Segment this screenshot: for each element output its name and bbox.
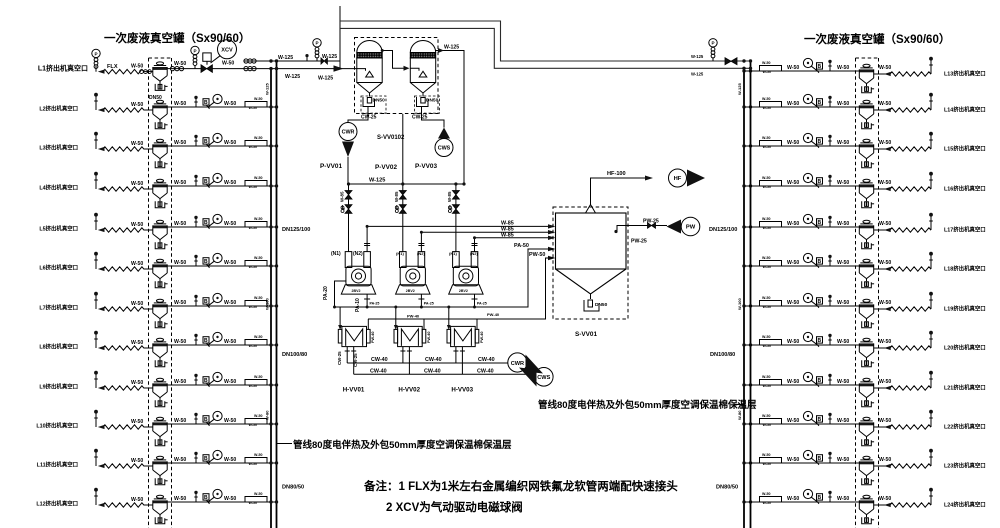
svg-text:备注：1 FLX为1米左右金属编织网铁氟龙软管两端配快速接头: 备注：1 FLX为1米左右金属编织网铁氟龙软管两端配快速接头 xyxy=(363,479,678,493)
svg-text:CWS: CWS xyxy=(438,146,451,152)
pump 3 drain stem xyxy=(472,295,478,308)
HF exhaust symbol xyxy=(669,169,687,187)
svg-text:L3挤出机真空口: L3挤出机真空口 xyxy=(39,144,78,152)
svg-text:PA-50: PA-50 xyxy=(514,243,529,249)
branch row L21 xyxy=(742,371,933,407)
svg-text:HF-100: HF-100 xyxy=(607,171,626,177)
junction dots top-left xyxy=(269,67,272,70)
branch row L4 xyxy=(94,172,278,208)
svg-text:H-VV02: H-VV02 xyxy=(398,387,420,394)
cooling water CW-25 piping under tanks xyxy=(348,107,368,123)
heat exchanger H-VV01 xyxy=(338,326,370,346)
riser from header to transfer lines xyxy=(339,6,341,69)
svg-text:W-85: W-85 xyxy=(340,191,345,202)
svg-text:CW-25: CW-25 xyxy=(412,115,428,121)
svg-text:L4挤出机真空口: L4挤出机真空口 xyxy=(39,184,78,192)
svg-text:PW-40: PW-40 xyxy=(480,331,484,343)
svg-text:W-125: W-125 xyxy=(265,83,270,95)
svg-text:P-VV02: P-VV02 xyxy=(375,164,397,171)
CW supply collector xyxy=(354,373,535,375)
svg-text:CWS: CWS xyxy=(537,375,550,381)
vacuum tank group dashed enclosure xyxy=(355,38,439,114)
svg-text:DN125/100: DN125/100 xyxy=(282,227,310,233)
vacuum pump 1 xyxy=(341,252,375,295)
svg-text:PW-50: PW-50 xyxy=(529,252,545,258)
heat exchanger H-VV03 xyxy=(447,326,479,346)
branch row L1 (with FLX hose and XCV valve) xyxy=(95,66,97,72)
HX feed drops xyxy=(340,307,449,328)
svg-text:DN50: DN50 xyxy=(595,302,608,308)
svg-text:CW-25: CW-25 xyxy=(361,115,377,121)
svg-text:W-125: W-125 xyxy=(285,74,300,80)
svg-text:W-85: W-85 xyxy=(501,232,514,238)
svg-text:W-125: W-125 xyxy=(369,178,385,184)
svg-text:DN80/50: DN80/50 xyxy=(716,485,738,491)
svg-text:CW-25: CW-25 xyxy=(353,353,358,367)
branch row L24 xyxy=(742,488,933,524)
svg-text:W-50: W-50 xyxy=(174,61,186,67)
svg-text:CW-40: CW-40 xyxy=(424,369,441,375)
svg-text:P-VV03: P-VV03 xyxy=(415,163,437,170)
svg-text:一次废液真空罐（Sx90/60）: 一次废液真空罐（Sx90/60） xyxy=(804,32,950,46)
vent valve stem xyxy=(306,57,308,61)
svg-text:PA-25: PA-25 xyxy=(477,302,487,306)
svg-text:CW-25: CW-25 xyxy=(337,351,342,365)
pump 2 suction riser with valves xyxy=(402,184,404,252)
svg-text:W-125: W-125 xyxy=(691,72,704,77)
svg-text:L23挤出机真空口: L23挤出机真空口 xyxy=(944,462,986,470)
valve XCV (pneumatic ball valve) xyxy=(201,65,212,73)
svg-text:CW-40: CW-40 xyxy=(478,357,495,363)
branch row L6 xyxy=(94,252,278,288)
svg-text:L15挤出机真空口: L15挤出机真空口 xyxy=(944,145,986,153)
branch row L8 xyxy=(94,331,278,367)
svg-text:HF: HF xyxy=(674,176,682,182)
svg-text:PW-40: PW-40 xyxy=(407,314,420,319)
branch row L11 xyxy=(94,449,278,485)
branch row L20 xyxy=(742,331,933,367)
separator tank S-VV01 xyxy=(556,213,627,269)
svg-text:L24挤出机真空口: L24挤出机真空口 xyxy=(944,501,986,509)
wire: transfer line upper xyxy=(340,21,751,61)
branch row L10 xyxy=(94,410,278,446)
tank2 inlet nozzle xyxy=(410,68,419,71)
branch row L9 xyxy=(94,371,278,407)
valve on transfer line (right) xyxy=(725,58,737,65)
HX 3 PW riser xyxy=(476,319,478,330)
svg-text:W-80: W-80 xyxy=(737,410,742,420)
HX 1 CW stems xyxy=(345,347,350,363)
svg-text:(N2): (N2) xyxy=(417,251,425,256)
junction dots pump area xyxy=(347,182,350,185)
branch row L3 xyxy=(94,132,278,168)
wire W-85 exhaust line 1 xyxy=(367,225,549,227)
branch row L14 xyxy=(742,93,933,129)
insulation note (right) xyxy=(734,404,744,406)
svg-text:L9挤出机真空口: L9挤出机真空口 xyxy=(39,383,78,391)
pressure gauge P on header xyxy=(313,39,321,61)
svg-text:L1挤出机真空口: L1挤出机真空口 xyxy=(38,64,88,73)
right vacuum main (vertical pair) xyxy=(743,68,745,528)
svg-text:W-85: W-85 xyxy=(394,191,399,202)
svg-text:CWR: CWR xyxy=(342,130,355,136)
svg-text:H-VV03: H-VV03 xyxy=(451,387,473,394)
HX 1 PW riser xyxy=(367,319,369,330)
branch row L19 xyxy=(742,292,933,328)
svg-text:(N1): (N1) xyxy=(396,251,404,256)
svg-text:L13挤出机真空口: L13挤出机真空口 xyxy=(944,70,986,78)
tank P-VV03 xyxy=(410,41,435,107)
svg-text:W-100: W-100 xyxy=(265,298,270,310)
wire: W-125 suction line to tanks (lower) xyxy=(167,68,357,70)
CWS circle (bottom) xyxy=(535,368,554,387)
svg-text:P: P xyxy=(315,41,318,46)
svg-text:L20挤出机真空口: L20挤出机真空口 xyxy=(944,344,986,352)
svg-text:CW-40: CW-40 xyxy=(425,357,442,363)
branch row L5 xyxy=(94,213,278,249)
pump 1 suction riser with valves xyxy=(348,184,350,252)
svg-text:P: P xyxy=(711,41,714,46)
heat exchanger H-VV02 xyxy=(394,326,426,346)
svg-text:L8挤出机真空口: L8挤出机真空口 xyxy=(39,343,78,351)
wire W-85 exhaust line 2 xyxy=(421,231,549,233)
svg-text:W-125: W-125 xyxy=(318,76,333,82)
branch row L16 xyxy=(742,172,933,208)
HX 2 PW riser xyxy=(423,319,425,330)
valve on header xyxy=(321,58,327,64)
branch row L15 xyxy=(742,132,933,168)
svg-text:2 XCV为气动驱动电磁球阀: 2 XCV为气动驱动电磁球阀 xyxy=(386,500,523,514)
svg-text:DN100/80: DN100/80 xyxy=(282,352,307,358)
PW-40 collector to separator xyxy=(368,258,553,319)
svg-text:P: P xyxy=(94,51,97,56)
svg-text:H-VV01: H-VV01 xyxy=(343,387,365,394)
PA-20 line from pump1 xyxy=(335,281,347,307)
pump 3 suction riser with valves xyxy=(455,184,457,252)
svg-text:W-85: W-85 xyxy=(447,191,452,202)
tank outlet W-125 xyxy=(436,51,464,185)
svg-text:L6挤出机真空口: L6挤出机真空口 xyxy=(39,264,78,272)
svg-text:L14挤出机真空口: L14挤出机真空口 xyxy=(944,106,986,114)
wire: W-125 header (upper) xyxy=(244,60,340,62)
HX 2 CW stems xyxy=(400,347,405,363)
separator vent triangle xyxy=(586,205,596,214)
branch row L23 xyxy=(742,449,933,485)
svg-text:P: P xyxy=(193,48,196,53)
branch row L13 xyxy=(742,57,933,93)
pump 1 drain stem xyxy=(364,295,370,308)
svg-text:PW-25: PW-25 xyxy=(631,239,647,245)
svg-text:L12挤出机真空口: L12挤出机真空口 xyxy=(36,500,78,508)
svg-text:CW-40: CW-40 xyxy=(371,357,388,363)
svg-text:XCV: XCV xyxy=(221,48,233,54)
svg-text:W-50: W-50 xyxy=(131,63,143,69)
svg-text:L19挤出机真空口: L19挤出机真空口 xyxy=(944,305,986,313)
svg-text:DN80/50: DN80/50 xyxy=(282,485,304,491)
tank P-VV01 xyxy=(357,41,382,107)
svg-text:W-100: W-100 xyxy=(737,298,742,310)
wire: transfer line lower xyxy=(340,28,751,68)
PA collector to separator xyxy=(335,249,554,307)
svg-text:一次废液真空罐（Sx90/60）: 一次废液真空罐（Sx90/60） xyxy=(104,31,250,45)
svg-text:(N1): (N1) xyxy=(331,251,341,257)
branch row L12 xyxy=(94,488,278,524)
PW-25 drain line xyxy=(617,226,667,232)
junction dots top-right xyxy=(742,59,745,62)
svg-text:DN125/100: DN125/100 xyxy=(709,227,737,233)
svg-text:(N1): (N1) xyxy=(449,251,457,256)
inter-tank pipe xyxy=(382,51,407,69)
branch row L17 xyxy=(742,213,933,249)
svg-text:L5挤出机真空口: L5挤出机真空口 xyxy=(39,225,78,233)
svg-text:P-VV01: P-VV01 xyxy=(320,163,342,170)
PW outlet symbol xyxy=(667,220,682,234)
right hopper column dashed enclosure xyxy=(856,58,879,528)
branch row L2 xyxy=(94,93,278,129)
svg-text:(N2): (N2) xyxy=(470,251,478,256)
svg-text:W-125: W-125 xyxy=(444,45,459,51)
svg-text:W-125: W-125 xyxy=(737,83,742,95)
svg-text:DN50: DN50 xyxy=(426,98,439,104)
svg-text:PA-25: PA-25 xyxy=(424,302,434,306)
svg-text:管线80度电伴热及外包50mm厚度空调保温棉保温层: 管线80度电伴热及外包50mm厚度空调保温棉保温层 xyxy=(538,399,757,411)
tank1 inlet nozzle xyxy=(357,69,366,71)
svg-text:L22挤出机真空口: L22挤出机真空口 xyxy=(944,423,986,431)
insulation note (left) xyxy=(277,443,292,445)
svg-text:DN50: DN50 xyxy=(149,95,162,101)
svg-text:CW-40: CW-40 xyxy=(370,369,387,375)
svg-text:W-50: W-50 xyxy=(222,61,234,67)
svg-text:L10挤出机真空口: L10挤出机真空口 xyxy=(36,422,78,430)
branch row L22 xyxy=(742,410,933,446)
separator dashed enclosure xyxy=(553,207,628,319)
svg-text:S-VV0102: S-VV0102 xyxy=(377,135,405,141)
svg-text:管线80度电伴热及外包50mm厚度空调保温棉保温层: 管线80度电伴热及外包50mm厚度空调保温棉保温层 xyxy=(293,439,512,451)
pressure gauge on transfer line (right) xyxy=(709,39,717,61)
pump 2 exhaust riser xyxy=(418,232,424,251)
svg-text:PA-20: PA-20 xyxy=(323,286,329,300)
svg-text:L21挤出机真空口: L21挤出机真空口 xyxy=(944,384,986,392)
HX 3 CW stems xyxy=(453,347,458,363)
svg-text:W-125: W-125 xyxy=(322,54,337,60)
svg-text:CWR: CWR xyxy=(511,361,524,367)
pump 3 exhaust riser xyxy=(472,238,478,252)
svg-text:PW: PW xyxy=(686,225,696,231)
flexible coupling (double) xyxy=(244,59,256,71)
svg-text:PA-25: PA-25 xyxy=(370,302,380,306)
svg-text:L17挤出机真空口: L17挤出机真空口 xyxy=(944,226,986,234)
vacuum pump 2 xyxy=(396,252,430,295)
svg-text:PW-25: PW-25 xyxy=(643,219,659,225)
svg-text:L18挤出机真空口: L18挤出机真空口 xyxy=(944,265,986,273)
vacuum pump 3 xyxy=(449,252,483,295)
svg-text:L16挤出机真空口: L16挤出机真空口 xyxy=(944,185,986,193)
CW return collector xyxy=(347,362,507,364)
svg-text:PW-40: PW-40 xyxy=(427,331,431,343)
pressure gauge P with siphon xyxy=(191,46,199,68)
branch row L7 xyxy=(94,292,278,328)
tank drain header to pump2 riser xyxy=(402,114,404,184)
CWR circle (bottom) xyxy=(508,353,527,372)
flow wedges between CWR/CWS xyxy=(526,355,544,374)
svg-text:W-125: W-125 xyxy=(691,54,704,59)
W-125 pump suction manifold xyxy=(349,183,465,185)
pump 2 drain stem xyxy=(418,295,424,308)
left hopper column dashed enclosure xyxy=(149,58,172,528)
svg-text:PW-40: PW-40 xyxy=(371,331,375,343)
coupling before hopper1 xyxy=(140,70,152,74)
HF-100 vent line xyxy=(591,178,651,205)
CWS circle (top) xyxy=(435,139,453,157)
quick coupling xyxy=(170,67,183,71)
svg-text:W-80: W-80 xyxy=(265,410,270,420)
svg-text:PA-10: PA-10 xyxy=(355,298,361,312)
svg-text:DN50: DN50 xyxy=(373,98,386,104)
svg-text:L2挤出机真空口: L2挤出机真空口 xyxy=(39,105,78,113)
pump 1 exhaust riser xyxy=(364,226,370,251)
wire W-85 exhaust line 3 xyxy=(475,237,550,239)
svg-text:S-VV01: S-VV01 xyxy=(575,331,597,338)
svg-text:PW-40: PW-40 xyxy=(487,312,500,317)
branch row L18 xyxy=(742,252,933,288)
svg-text:DN100/80: DN100/80 xyxy=(710,352,735,358)
svg-text:W-125: W-125 xyxy=(278,55,293,61)
svg-text:CW-40: CW-40 xyxy=(477,369,494,375)
svg-text:(N2): (N2) xyxy=(353,251,363,257)
flow arrow into tank1 xyxy=(334,65,344,71)
CWR circle (top) xyxy=(339,123,357,141)
svg-text:L11挤出机真空口: L11挤出机真空口 xyxy=(37,461,78,469)
separator drain valve DN50 xyxy=(584,300,599,311)
left vacuum main (vertical pair) xyxy=(270,69,272,528)
svg-text:L7挤出机真空口: L7挤出机真空口 xyxy=(39,304,78,312)
